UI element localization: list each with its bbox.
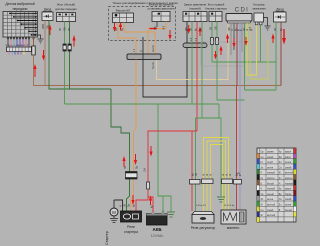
svg-text:Жгут (белый): Жгут (белый) [57,3,75,7]
stop switch title [148,3,175,11]
wire CDI yellow to coil [247,23,257,75]
ignition coil title [252,3,266,11]
svg-text:CDI: CDI [235,8,250,14]
diode D2 left wire stub [275,22,277,90]
arrow up coil [271,34,274,44]
svg-text:Диод: Диод [44,8,52,12]
svg-text:остановки двигателя: остановки двигателя [148,7,175,11]
svg-text:ЗЛ: ЗЛ [69,28,71,31]
svg-text:белый: белый [267,182,274,185]
svg-text:ЗЛ: ЗЛ [196,173,198,176]
sensor terminal pins [7,37,34,39]
starter button green wires with fuses [211,22,219,63]
starter relay label [124,225,138,234]
wire maroon down to magneto [236,86,238,211]
red bus and battery feed [148,131,197,182]
main harness connector bar [127,54,161,60]
wire CDI blue to magneto [239,23,241,210]
sensor wires to connector [8,37,29,47]
wire diode green to bus G1 [49,21,111,90]
ground under sensor [38,35,44,43]
svg-text:ЗЛ: ЗЛ [244,28,246,31]
svg-text:стартера: стартера [124,230,138,234]
arrow up left bus [33,64,36,77]
arrow down relay [131,195,134,205]
tiny wire labels [7,23,284,208]
svg-text:оранж: оранж [267,152,274,154]
arrow up option [119,22,122,31]
regulator rectifier [192,212,214,224]
svg-text:передачи: передачи [13,7,28,11]
gear position sensor grid [3,12,38,38]
svg-text:зелен: зелен [285,162,292,164]
arrow up starter feed [122,154,137,167]
harness green wires with inline connectors [63,22,71,105]
arrow down ignition [187,25,190,34]
wire coil ground-side green [260,25,262,62]
inline connector starter feed [126,172,138,180]
svg-text:зажигания: зажигания [252,7,266,11]
red wire fuse to relay and battery [136,189,148,211]
ignition green wire 2 [201,22,203,119]
svg-text:M: M [112,210,116,215]
arrow down CDI mid [232,38,235,48]
arrow down fuse feed [149,146,152,157]
ignition red wire [196,22,198,132]
ignition coil ground [264,18,271,31]
svg-text:Зел/Ж: Зел/Ж [153,44,155,52]
svg-text:АКБ: АКБ [152,227,161,232]
ignition black wire [186,22,188,44]
svg-text:желтый: желтый [285,172,294,175]
faint harness outline [201,42,244,66]
svg-text:Ж Ж Ж Кр: Ж Ж Ж Кр [224,205,235,207]
arrow down stop [168,30,171,40]
arrow up starter button [219,46,222,56]
svg-text:Реле-регулятор: Реле-регулятор [191,226,216,230]
CDI unit [226,14,252,24]
red wire regulator [191,131,193,211]
arrow down diode2 big [282,29,286,45]
svg-text:датчик передач: датчик передач [55,7,77,11]
ignition switch block [183,12,207,22]
arrow down starter button [214,51,217,60]
legend table [257,148,296,222]
svg-text:ЗЛ: ЗЛ [275,28,277,31]
sensor contact rows with arrows [10,13,36,35]
svg-text:желтый: желтый [267,204,276,207]
harness connector (white) title [55,3,77,12]
svg-text:Датчик выбранной: Датчик выбранной [5,2,34,6]
wire green CDI to diode D2 [245,89,277,91]
wire CDI yellow-green loop [250,23,268,79]
label starter feed [125,165,139,169]
svg-text:бордо: бордо [285,194,292,196]
fuse on sensor feed [32,37,35,55]
svg-text:ЗЛ: ЗЛ [201,28,203,31]
battery [147,211,168,226]
svg-text:голуб: голуб [267,162,274,164]
wire CDI maroon to bus [236,23,238,86]
arrow down CDI yellow [244,37,247,46]
svg-text:ЗЛ: ЗЛ [60,28,62,31]
svg-text:З/Б: З/Б [65,27,67,31]
arrow up battery [149,196,152,206]
svg-text:12В: 12В [236,173,240,175]
wire tan bar to CDI [157,23,229,80]
arrow up CDI left [226,34,229,44]
svg-text:Ж/З: Ж/З [164,25,166,30]
wire orange stop [148,22,166,55]
svg-text:ЗЛ: ЗЛ [191,28,193,31]
legend cell text [261,152,294,218]
svg-text:12V9Ah: 12V9Ah [151,234,164,238]
brown feed wire to bus [34,55,282,86]
svg-text:(черный): (черный) [189,7,201,11]
svg-text:фиол: фиол [285,156,291,159]
starter ground [110,216,118,223]
wire black bar to ignition [143,37,187,97]
wire orange option A [118,23,136,55]
svg-text:З/Б: З/Б [48,25,50,29]
starter button title [205,3,227,11]
wire CDI green to bus [244,23,246,90]
ignition switch title [184,3,207,11]
legend right swatches [294,148,297,217]
ground mid right [217,197,225,202]
svg-text:коричн: коричн [285,178,293,180]
svg-text:Ч/Б: Ч/Б [229,27,231,31]
svg-text:синий: синий [285,198,292,201]
battery minus green [162,196,164,214]
svg-text:черный: черный [267,188,276,191]
dashed option region [109,7,176,41]
svg-text:магнето: магнето [227,226,240,230]
diode D2 [274,12,287,22]
svg-text:зелен: зелен [267,167,274,169]
svg-text:Стартер: Стартер [105,231,109,245]
starter button block [209,12,222,22]
starter motor [110,200,123,216]
svg-text:З/Б: З/Б [216,26,218,30]
svg-text:ЗЛ: ЗЛ [211,27,213,30]
svg-text:Реле: Реле [127,225,135,229]
svg-text:зелен: зелен [267,199,274,201]
wire orange to starter relay [131,60,137,212]
magneto [221,210,246,224]
svg-text:Ч/Б: Ч/Б [186,27,188,31]
green bus to diode D2 [212,61,276,63]
stop switch wires [156,22,158,28]
svg-text:красн: красн [285,152,292,154]
svg-text:Разъем ЖГ: Разъем ЖГ [116,9,131,13]
svg-text:Ч/Б: Ч/Б [155,26,157,30]
green branch regulator [195,118,197,211]
svg-text:15А: 15А [144,167,147,172]
arrow up ignition [198,27,201,37]
arrow up harness [72,35,75,47]
harness connector block [57,13,76,22]
svg-text:Ф: Ф [18,44,21,46]
svg-text:синий: синий [285,166,292,169]
wire orange option B [124,23,155,55]
svg-text:синий: синий [267,209,274,212]
svg-text:серый: серый [267,193,274,196]
svg-text:ЗЛ: ЗЛ [125,166,127,169]
yellow loop 3 [211,145,223,212]
yellow loop 2 [207,141,226,211]
diode D1 wires [44,21,46,86]
arrow down diode1 [42,50,45,61]
svg-text:ЗЛ/Б: ЗЛ/Б [43,23,45,29]
red arrows [33,22,286,205]
svg-text:синий: синий [267,156,274,159]
diode D1 [42,12,53,21]
battery ground [167,212,175,217]
arrow up diode1 [48,25,51,36]
svg-text:красн: красн [285,189,292,191]
svg-text:коричн: коричн [267,178,275,180]
legend left swatches [257,153,260,222]
svg-text:Зел/Ж: Зел/Ж [153,61,155,69]
ignition coil block [254,13,264,25]
red stub [150,28,158,30]
green bus G1 staircase to starter relay [111,89,130,211]
option connector block [113,13,134,23]
svg-text:0.5 Кр ЗЛ: 0.5 Кр ЗЛ [196,205,206,207]
arrow down option [113,23,116,32]
red wire battery plus [148,197,153,213]
connector X1 strip [7,47,32,55]
svg-text:желтый: желтый [267,214,276,217]
stop switch block [152,12,170,22]
svg-text:Ф: Ф [21,44,24,46]
ignition green wire 1 [191,22,193,105]
svg-text:Кнопка стартера: Кнопка стартера [205,7,227,11]
battery labels [151,227,164,238]
svg-text:белый: белый [285,209,292,212]
svg-text:зелен: зелен [285,205,292,207]
ignition connector oval [183,43,207,48]
starter relay [121,211,142,222]
svg-text:черный: черный [285,182,294,185]
gear position sensor title [5,2,34,11]
green branch ground right [219,118,221,196]
green bus G2 [65,103,220,105]
svg-text:черный: черный [267,172,276,175]
green jog at ignition [218,104,220,118]
inline connector pins bottom [190,179,242,184]
svg-text:ЗЛ: ЗЛ [125,204,127,207]
green starter button to CDI [217,45,245,100]
diode D2 right wire to bus [280,22,282,86]
green branch to ground [158,104,171,212]
yellow loop 1 [204,138,229,212]
CDI pin wires [231,23,242,55]
svg-text:Диод: Диод [276,8,284,12]
fuse 15A [147,182,150,189]
